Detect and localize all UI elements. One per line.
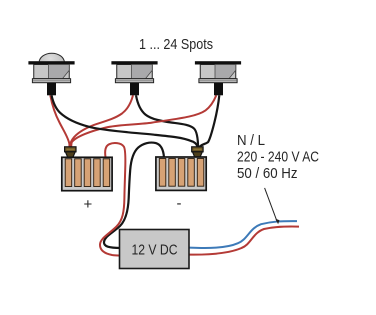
wire black spot2 to minus connector bbox=[136, 95, 198, 148]
terminal block plus bbox=[62, 157, 112, 190]
body of spot S3 bbox=[200, 65, 236, 79]
wire black spot3 to minus connector bbox=[199, 95, 220, 148]
wire blue AC from box to right bbox=[189, 221, 297, 248]
flange of spot S1 bbox=[28, 61, 74, 64]
body right panel of spot S3 bbox=[215, 65, 236, 79]
wire connector (ferrule) at minus block bbox=[192, 147, 203, 158]
wire black spot1 to minus connector bbox=[52, 95, 198, 148]
stem of spot S3 bbox=[214, 83, 223, 96]
body right panel of spot S2 bbox=[132, 65, 153, 79]
rim of spot S3 bbox=[199, 79, 237, 83]
body of spot S1 bbox=[34, 65, 70, 79]
wire red spot1 to plus connector bbox=[50, 95, 69, 148]
leader line to AC wires bbox=[265, 188, 278, 222]
flange of spot S2 bbox=[111, 61, 157, 64]
body right panel of spot S1 bbox=[49, 65, 70, 79]
rim of spot S2 bbox=[115, 79, 153, 83]
wire red spot3 to plus connector bbox=[71, 95, 216, 148]
spot S3 bbox=[195, 61, 241, 95]
svg-text:+: + bbox=[84, 196, 93, 213]
body of spot S2 bbox=[117, 65, 153, 79]
rim of spot S1 bbox=[32, 79, 70, 83]
svg-text:220 - 240 V AC: 220 - 240 V AC bbox=[237, 149, 319, 166]
svg-text:N / L: N / L bbox=[237, 132, 265, 149]
flange of spot S3 bbox=[195, 61, 241, 64]
wire red spot2 to plus connector bbox=[70, 95, 133, 148]
wire black minus block to 12VDC box bbox=[104, 143, 164, 248]
spot S2 bbox=[111, 61, 157, 95]
svg-text:1 ... 24 Spots: 1 ... 24 Spots bbox=[139, 36, 213, 53]
terminal block minus bbox=[156, 157, 206, 190]
terminal bars plus block bbox=[65, 159, 72, 187]
wire red AC from box to right bbox=[189, 226, 299, 254]
svg-text:50 / 60 Hz: 50 / 60 Hz bbox=[237, 165, 298, 182]
12 V DC power supply box bbox=[120, 230, 190, 269]
wire connector (ferrule) at plus block bbox=[65, 147, 76, 158]
svg-text:-: - bbox=[177, 195, 182, 212]
svg-text:12 V DC: 12 V DC bbox=[132, 242, 178, 259]
stem of spot S2 bbox=[130, 83, 139, 96]
wire red plus block to 12VDC box bbox=[100, 143, 125, 255]
terminal bars minus block bbox=[159, 159, 166, 187]
arrowhead of leader line bbox=[275, 219, 279, 225]
dome of spot S1 bbox=[39, 53, 64, 72]
stem of spot S1 bbox=[47, 83, 56, 96]
spot S1 (with dome) bbox=[28, 53, 74, 95]
